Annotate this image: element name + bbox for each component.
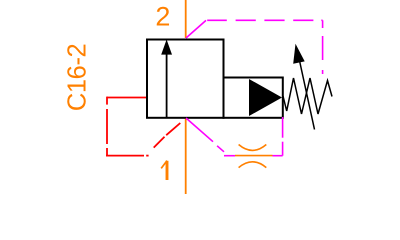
relief poppet triangle	[249, 79, 282, 116]
adjustment arrow	[293, 44, 314, 130]
port 2 label	[155, 1, 170, 31]
orifice line	[235, 155, 273, 157]
magenta pilot wire top loop	[186, 20, 323, 74]
svg-text:C16-2: C16-2	[63, 44, 91, 111]
magenta pilot wire bottom loop	[186, 117, 283, 156]
svg-text:2: 2	[155, 1, 170, 31]
pilot stage box	[224, 78, 283, 118]
valve body U1	[147, 40, 224, 118]
spring	[283, 78, 332, 114]
red pilot wire from port 1 side to valve left	[106, 97, 180, 156]
flow arrow inside valve body	[161, 40, 172, 118]
port 2 wire	[185, 0, 187, 38]
orifice lower arc	[239, 162, 267, 168]
port 1 label	[161, 161, 167, 180]
label C16-2	[63, 44, 91, 111]
port 1 wire	[185, 119, 187, 195]
orifice upper arc	[239, 145, 267, 151]
